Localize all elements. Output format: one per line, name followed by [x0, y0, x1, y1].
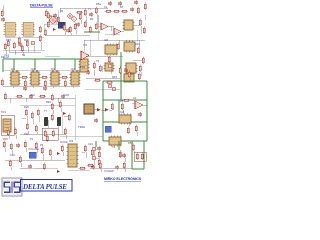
resistor R74 [59, 101, 61, 109]
resistor R75 [64, 128, 66, 136]
resistor R7 [47, 21, 49, 29]
resistor R84 [132, 144, 134, 152]
resistor R39 [68, 114, 70, 122]
resistor R34 [25, 109, 27, 117]
transistor Q10 [68, 14, 72, 18]
pin stubs DIP row [13, 70, 77, 72]
capacitor C21 [138, 112, 142, 117]
op-amp U4 [101, 23, 108, 30]
resistor R11 [84, 9, 86, 17]
resistor R46 [24, 141, 26, 149]
resistor R44 [3, 141, 5, 149]
resistor R83 [123, 162, 125, 170]
resistor R60 [57, 16, 59, 24]
resistor R42 [127, 127, 129, 135]
resistor R25 [1, 79, 3, 87]
wire [6, 20, 141, 172]
resistor R50 [84, 145, 86, 153]
resistor R88 [51, 94, 53, 102]
resistor R86 [76, 11, 84, 13]
svg-text:R7: R7 [120, 5, 124, 9]
svg-text:R5a: R5a [96, 2, 101, 6]
svg-text:T9: T9 [112, 145, 116, 149]
transformer TR1 [3, 119, 11, 132]
resistor R51 [91, 149, 93, 157]
resistor R1 [7, 40, 9, 48]
resistor R18 [121, 10, 129, 12]
resistor R47 [41, 147, 43, 155]
resistor R41 [111, 103, 113, 111]
resistor R81 [87, 164, 95, 166]
box section 2 [134, 152, 146, 161]
resistor R94b [45, 10, 47, 18]
capacitor C5 [130, 7, 134, 12]
transistor Q20 [92, 147, 96, 151]
resistor R63 [89, 26, 91, 34]
svg-text:T5: T5 [96, 59, 100, 63]
capacitor C6b [118, 1, 122, 6]
resistor R52 [98, 151, 100, 159]
svg-text:P1: P1 [30, 137, 34, 141]
diode D1 [53, 28, 56, 31]
IC U6 [123, 20, 135, 30]
IC U16 [109, 136, 121, 147]
svg-text:R30: R30 [3, 137, 8, 141]
svg-text:C21: C21 [88, 142, 93, 146]
resistor R14 [95, 7, 97, 15]
resistor R53a [136, 153, 138, 161]
svg-text:TR4A: TR4A [78, 125, 85, 129]
resistor R20 [139, 19, 141, 27]
wire [20, 116, 69, 134]
transformer T1 circle [50, 17, 56, 23]
resistor R23 [41, 76, 49, 78]
capacitor C16 [122, 153, 126, 158]
svg-text:MIRKO ELECTRONICS: MIRKO ELECTRONICS [104, 177, 142, 181]
wire green loop [103, 81, 147, 141]
IC U13b small [104, 63, 115, 71]
resistor R80 [35, 142, 37, 150]
svg-text:R22: R22 [30, 93, 35, 97]
resistor R30 [137, 47, 139, 55]
resistor R6 [47, 12, 49, 20]
capacitor C4 [89, 12, 93, 17]
resistor R28 [108, 56, 110, 64]
op-amp U14 [135, 101, 143, 109]
IC U10b [79, 59, 90, 72]
resistor R33 [39, 95, 47, 97]
svg-text:IC5: IC5 [83, 43, 88, 47]
resistor R64 [4, 43, 6, 51]
diode D7 [57, 170, 60, 173]
resistor R93 [18, 37, 20, 45]
resistor R29 [117, 43, 119, 51]
resistor R67 [128, 71, 130, 79]
IC U8 [30, 72, 41, 85]
wire mesh [3, 10, 137, 170]
svg-text:C18: C18 [64, 93, 69, 97]
transistor Q22 [108, 84, 112, 88]
IC U7 [10, 72, 21, 85]
resistor R65 [21, 45, 23, 53]
resistor R78 [9, 160, 11, 168]
resistor R70 [106, 81, 114, 83]
capacitor C13 [94, 118, 98, 123]
wire [20, 167, 44, 169]
capacitor C20 [66, 28, 70, 33]
resistor R26 [93, 62, 95, 70]
resistor R72 [14, 128, 16, 136]
resistor R16 [105, 10, 113, 12]
svg-text:R12: R12 [24, 38, 29, 42]
svg-text:IC8: IC8 [120, 110, 125, 114]
capacitor C3 [76, 22, 80, 27]
resistor R92 [144, 3, 146, 11]
svg-text:POWER: POWER [104, 169, 114, 173]
svg-text:R33: R33 [112, 75, 117, 79]
resistor R94 [44, 29, 46, 37]
wire green [96, 141, 144, 169]
capacitor C6c [134, 0, 138, 5]
resistor R91 [79, 167, 87, 169]
resistor R35 [31, 112, 33, 120]
op-amp U11 [81, 51, 89, 60]
svg-text:MODE: MODE [60, 140, 68, 144]
resistor R8 [63, 24, 65, 32]
wire green bus left [3, 59, 80, 72]
resistor R32 [16, 95, 24, 97]
capacitor C8 [23, 86, 27, 91]
IC U12 [105, 44, 117, 56]
box section [1, 115, 14, 135]
svg-text:TR2: TR2 [80, 65, 85, 69]
transistor Q1 [31, 41, 35, 45]
wire [45, 8, 108, 35]
transistor Q21 [92, 156, 96, 160]
resistor R27 [99, 65, 101, 73]
svg-text:R3: R3 [90, 17, 94, 21]
transistor Q11 [72, 17, 76, 21]
capacitor C34 [1, 17, 5, 22]
svg-text:D6: D6 [120, 99, 124, 103]
svg-text:R51: R51 [128, 141, 133, 145]
resistor R61 [74, 23, 76, 31]
capacitor C33 [91, 165, 95, 170]
svg-text:IC9: IC9 [69, 139, 74, 143]
capacitor C6 [108, 1, 112, 6]
resistor R88b [4, 93, 6, 101]
wire [4, 98, 75, 103]
op-amp U5 [114, 28, 121, 35]
svg-text:DELTA PULSE: DELTA PULSE [22, 183, 67, 191]
resistor R48 [49, 149, 51, 157]
resistor R3 [26, 40, 28, 48]
resistor R90 [46, 135, 48, 143]
resistor R24c [64, 80, 66, 88]
svg-text:TR1: TR1 [1, 110, 6, 114]
resistor R71 [7, 129, 9, 137]
box section 3 [42, 128, 58, 140]
svg-text:DELTA PULSE: DELTA PULSE [30, 4, 53, 8]
svg-text:C2: C2 [104, 5, 108, 9]
wire [84, 40, 145, 78]
capacitor C22 [115, 165, 119, 170]
svg-text:T7: T7 [44, 109, 48, 113]
capacitor C40 electrolytic [44, 117, 48, 126]
IC U13 [125, 63, 138, 73]
IC U12b [124, 41, 135, 53]
capacitor C41 electrolytic [57, 117, 61, 126]
capacitor C32 [61, 94, 65, 99]
IC U10 [70, 72, 81, 85]
resistor R15 [95, 23, 97, 31]
svg-text:R19: R19 [135, 42, 140, 46]
IC U15 [119, 114, 131, 125]
resistor R82 [99, 162, 101, 170]
capacitor C11 [124, 68, 128, 73]
resistor R43 [135, 125, 137, 133]
wire green net [84, 32, 121, 100]
wire [3, 86, 80, 88]
capacitor C9 [43, 86, 47, 91]
resistor R37 [26, 123, 28, 131]
resistor R77 [121, 103, 123, 111]
svg-text:C30: C30 [10, 153, 15, 157]
DELTA PULSE title [21, 180, 73, 192]
IC U17 [67, 144, 79, 167]
resistor R49 [61, 145, 63, 153]
resistor R13 [84, 21, 86, 29]
resistor R2 [13, 42, 15, 50]
wire [98, 15, 145, 34]
resistor R24a [24, 80, 26, 88]
diode D5 [57, 152, 60, 155]
wire green stub [47, 15, 52, 17]
resistor R9 [69, 26, 71, 34]
IC U2 [22, 22, 35, 36]
resistor R62 [79, 13, 81, 21]
resistor R53 [43, 163, 45, 171]
svg-text:C14: C14 [4, 53, 9, 57]
resistor R68 [139, 65, 141, 73]
wire [94, 103, 147, 136]
connector J1 [58, 22, 65, 28]
resistor R73 [51, 103, 53, 111]
resistor R4 [39, 26, 41, 34]
svg-text:R10: R10 [6, 38, 11, 42]
resistor R24b [44, 80, 46, 88]
capacitor C12 blue [105, 126, 111, 132]
resistor R79 [19, 156, 21, 164]
resistor R40 [123, 99, 131, 101]
resistor R17 [113, 10, 121, 12]
resistor R76 [44, 130, 46, 138]
svg-text:R1: R1 [60, 9, 64, 13]
svg-text:R40: R40 [46, 100, 51, 104]
capacitor C10 [86, 70, 90, 75]
resistor R52b [98, 159, 100, 167]
wire [2, 5, 4, 19]
svg-text:A2: A2 [133, 96, 137, 100]
capacitor C1 [18, 42, 22, 47]
capacitor C14 [16, 143, 20, 148]
svg-text:P2: P2 [40, 143, 44, 147]
svg-text:T2: T2 [22, 53, 26, 57]
capacitor C31 [29, 94, 33, 99]
svg-text:VOLUME: VOLUME [28, 147, 39, 151]
wire [9, 42, 41, 55]
resistor R95 [119, 151, 121, 159]
resistor R24 [61, 76, 69, 78]
transistor Q2 [108, 64, 112, 68]
resistor R96 [1, 10, 3, 18]
logo [2, 178, 22, 196]
relay K1 [84, 104, 94, 114]
resistor R69 [94, 79, 102, 81]
resistor R5 [39, 35, 41, 43]
resistor R38 [35, 125, 37, 133]
IC U9 [50, 72, 61, 85]
svg-text:T1: T1 [88, 7, 92, 11]
diode D4 [105, 108, 109, 112]
resistor R76b [52, 130, 54, 138]
transistor Q23 [112, 87, 116, 91]
potentiometer P1 [29, 152, 36, 158]
resistor R87 [51, 114, 53, 122]
IC U1 [4, 22, 17, 36]
capacitor C2 [53, 13, 57, 18]
diode D2 [63, 112, 66, 115]
resistor R36 [37, 109, 39, 117]
svg-text:R25: R25 [24, 105, 29, 109]
wire [82, 149, 132, 168]
resistor R22 [21, 76, 29, 78]
resistor R66 [119, 67, 121, 75]
resistor R53b [141, 153, 143, 161]
wire [5, 148, 65, 160]
IC U13c [124, 74, 134, 82]
capacitor C17 [28, 164, 32, 169]
diode D3 [97, 108, 101, 112]
capacitor C15 [97, 146, 101, 151]
resistor R31 [142, 57, 144, 65]
resistor R21 [143, 27, 145, 35]
resistor R45 [10, 143, 12, 151]
resistor R19 [137, 7, 139, 15]
resistor R89 [138, 73, 140, 81]
